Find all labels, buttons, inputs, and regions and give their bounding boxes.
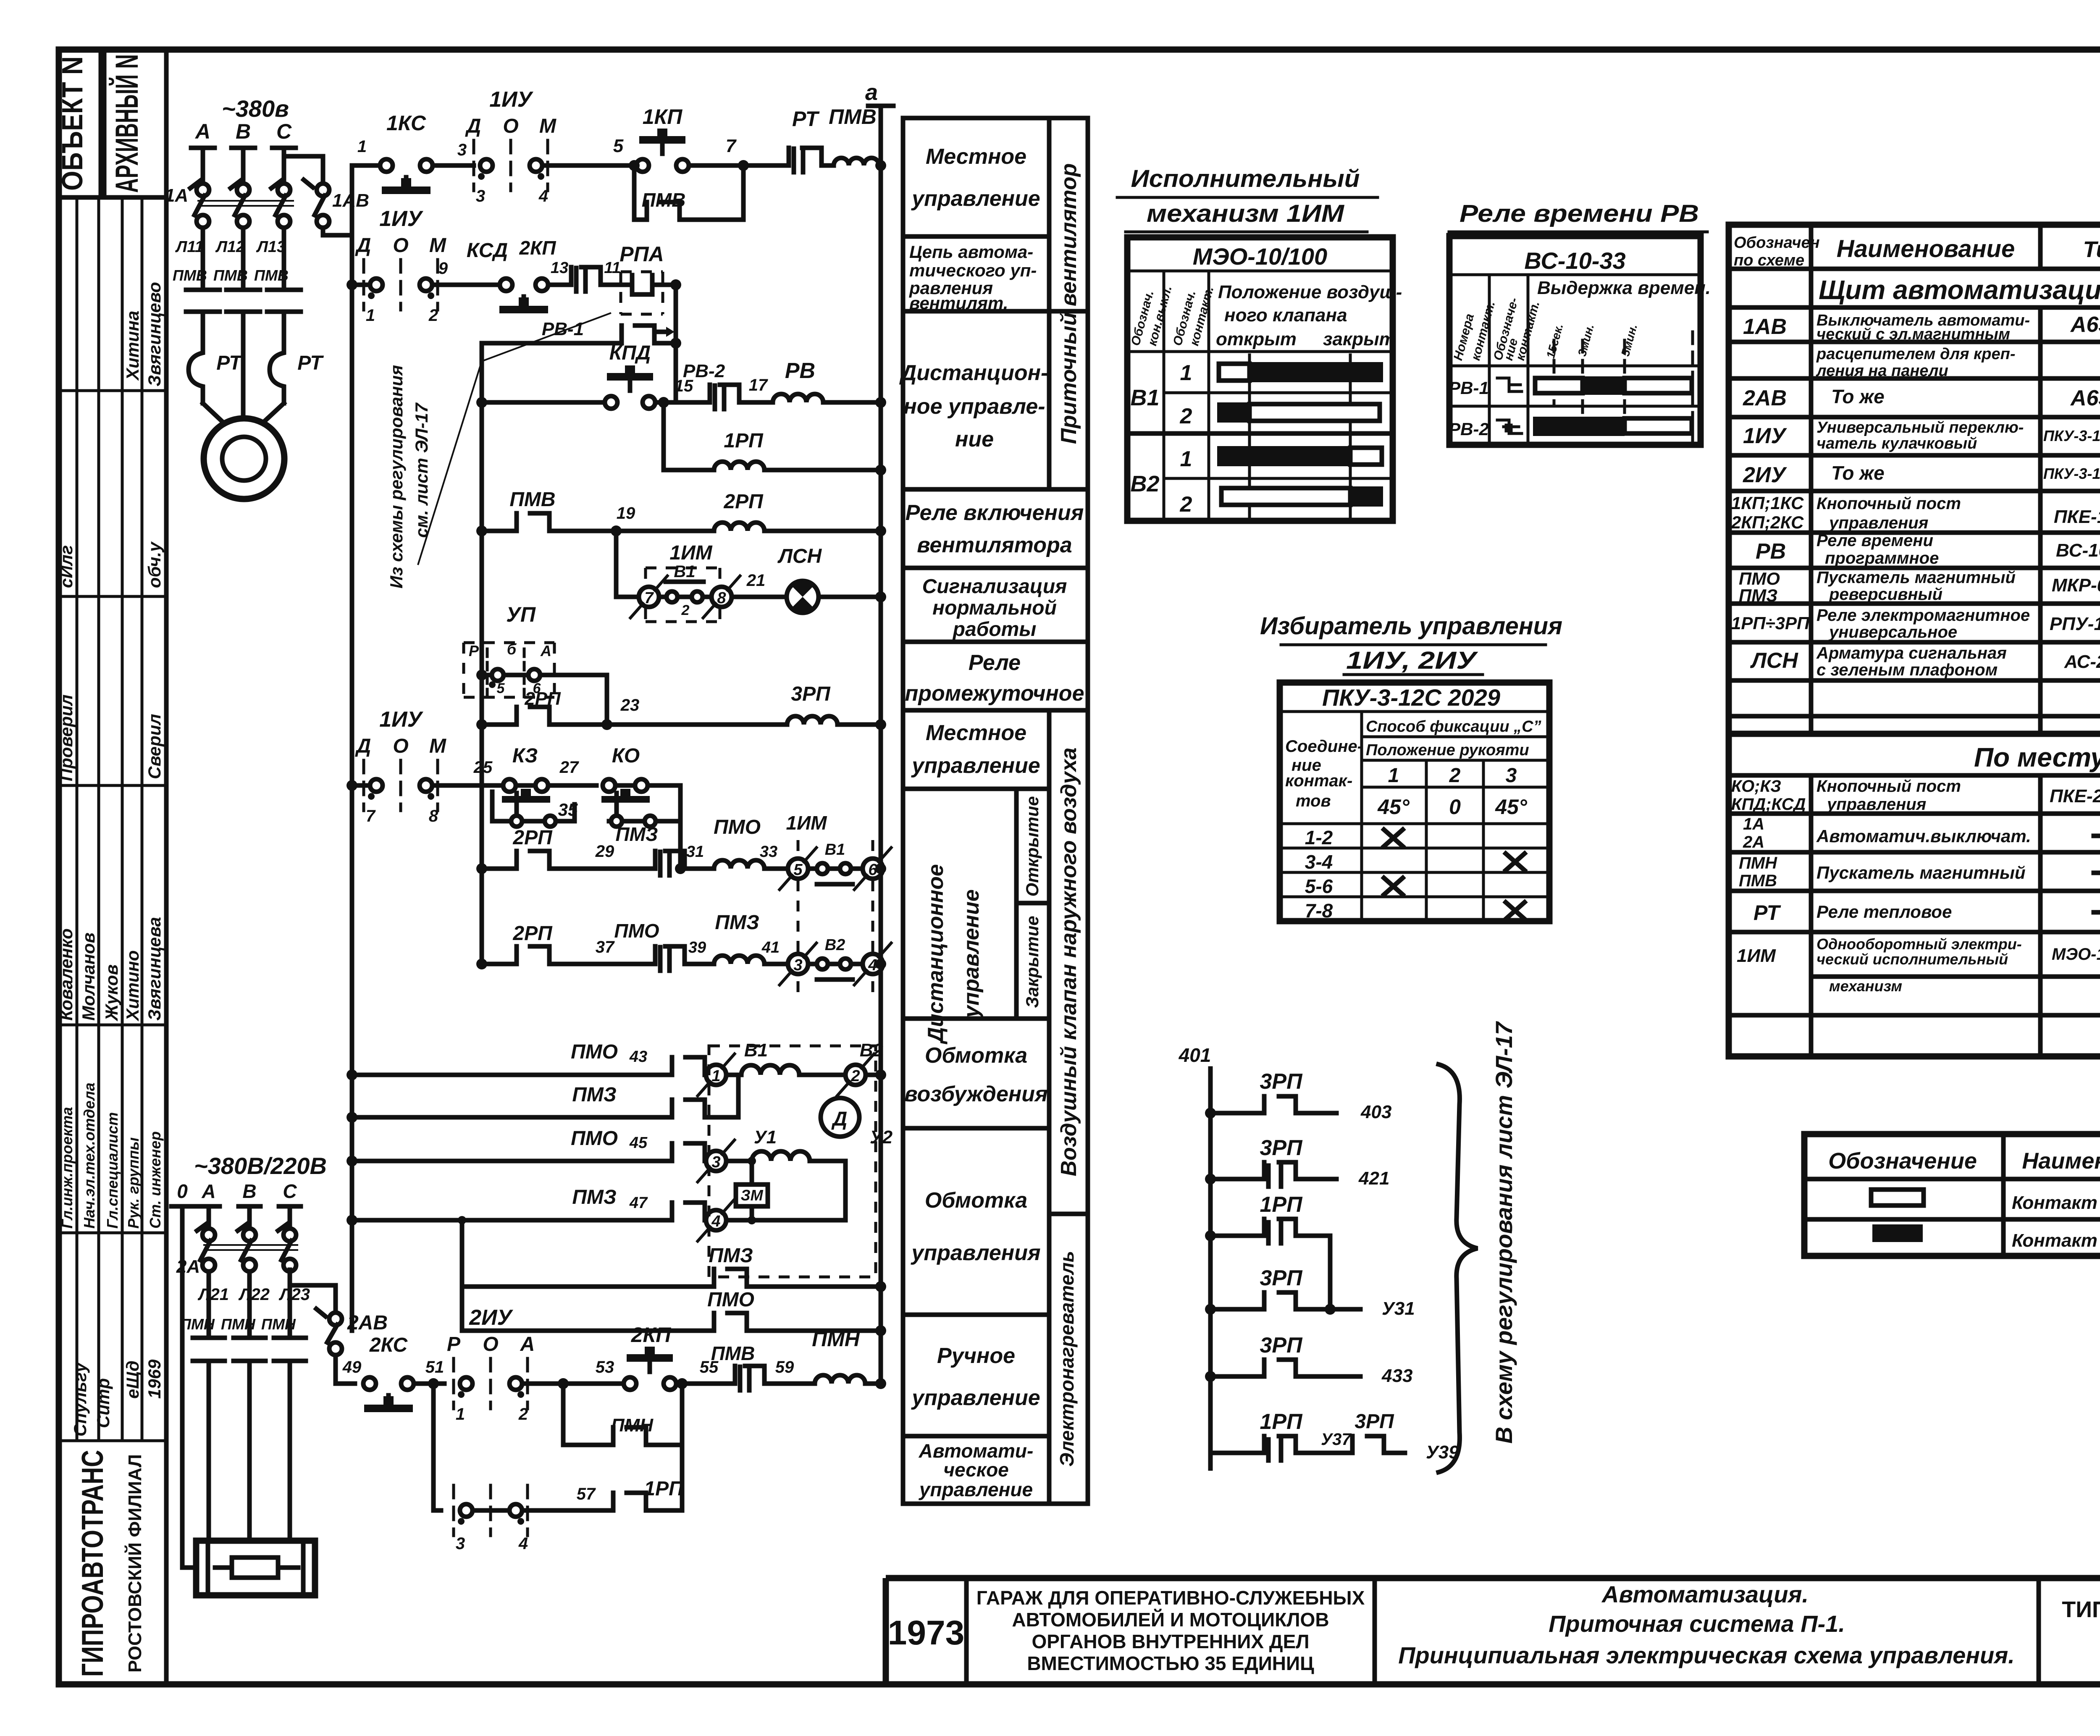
row 433: wire [1210,1374,1360,1379]
svg-text:433: 433 [1381,1366,1412,1386]
svg-text:ВС-10-33: ВС-10-33 [1524,247,1625,274]
svg-text:М: М [539,115,556,137]
svg-text:РТ: РТ [792,107,820,131]
svg-text:ОБЪЕКТ N: ОБЪЕКТ N [56,56,89,191]
svg-text:ПМН: ПМН [261,1316,296,1333]
svg-text:Пускатель магнитный: Пускатель магнитный [1816,568,2016,587]
svg-text:1РП÷3РП: 1РП÷3РП [1731,613,1810,633]
svg-text:В схему регулирования лист Э: В схему регулирования лист ЭЛ-17 [1491,1021,1517,1444]
svg-text:0: 0 [177,1180,188,1202]
right rail [879,106,883,1384]
svg-text:ПМН: ПМН [812,1327,860,1351]
svg-text:Автоматизация.: Автоматизация. [1601,1581,1809,1607]
svg-text:13: 13 [551,259,568,277]
svg-text:Реле электромагнитное: Реле электромагнитное [1816,606,2030,625]
transition ticks [1249,355,1350,519]
svg-text:1ИУ, 2ИУ: 1ИУ, 2ИУ [1346,647,1478,674]
svg-text:Коваленко: Коваленко [56,928,76,1021]
svg-text:7-8: 7-8 [1305,900,1333,922]
row ПМО wire [476,863,487,874]
selector 2ИУ lower contacts [454,1485,528,1536]
svg-text:ПКУ-3-12С 2029: ПКУ-3-12С 2029 [2043,427,2100,444]
svg-text:А: А [540,642,551,659]
svg-text:3: 3 [457,141,467,159]
svg-text:То же: То же [1831,386,1885,407]
row 3РП wire [476,719,487,730]
svg-text:Наименование: Наименование [1837,235,2015,263]
svg-text:ПМО: ПМО [614,920,659,942]
left rail [350,165,354,1331]
svg-text:29: 29 [595,842,614,861]
contact glyph РВ-1 [1497,378,1522,391]
legend frame [1804,1134,2100,1256]
svg-text:2КС: 2КС [369,1334,408,1356]
svg-text:7: 7 [366,807,376,825]
row В1 wire [346,1069,357,1080]
legend closed contact symbol [1872,1224,1923,1242]
auto row 1РП [433,1384,441,1510]
svg-text:Л22: Л22 [238,1285,270,1304]
row 421: wire [1210,1177,1336,1182]
svg-text:АРХИВНЫЙ N: АРХИВНЫЙ N [109,54,145,193]
svg-text:~380в: ~380в [222,95,289,122]
svg-text:Тип: Тип [2083,237,2100,262]
BOTTOM MIDDLE LADDER [1179,1021,1517,1472]
contact 1РП NC [1264,1219,1296,1243]
svg-text:Электронагреватель: Электронагреватель [1056,1251,1078,1467]
svg-text:43: 43 [629,1048,647,1066]
svg-text:ПМЗ: ПМЗ [572,1186,616,1208]
svg-text:ПКУ-3-12С 2029: ПКУ-3-12С 2029 [2043,465,2100,482]
svg-text:3РП: 3РП [791,683,831,705]
svg-text:Положение рукояти: Положение рукояти [1366,741,1529,759]
contact 2РП row ПМЗ [517,946,549,964]
svg-text:б: б [507,641,517,658]
svg-text:ПМВ: ПМВ [173,267,207,284]
svg-text:3РП: 3РП [1260,1266,1303,1290]
junction dots [1205,1108,1216,1119]
contact РВ-2 [710,385,739,409]
svg-text:М: М [429,735,446,757]
svg-text:ПМН: ПМН [221,1316,256,1333]
bar РВ-2 open tail [1625,418,1692,433]
svg-text:2РП: 2РП [512,827,553,849]
contact ПМЗ [655,851,685,875]
svg-text:2ИУ: 2ИУ [1743,463,1787,487]
svg-text:У1: У1 [754,1127,777,1148]
svg-text:По месту: По месту [1974,742,2100,772]
svg-text:2КП: 2КП [631,1323,672,1347]
archive no box [104,50,166,197]
svg-text:контак-: контак- [1285,772,1352,790]
motor [204,418,284,499]
branch УП [476,670,487,680]
svg-text:Молчанов: Молчанов [79,932,98,1021]
contact 3РП NC row 421 [1264,1162,1296,1187]
bar РВ-1 closed part [1583,376,1625,395]
svg-text:Жуков: Жуков [102,964,121,1022]
svg-text:31: 31 [686,843,704,861]
svg-text:3: 3 [711,1153,720,1171]
bus wire 401 [1208,1069,1213,1468]
time scale ticks [1554,332,1693,441]
label column frame [903,118,1088,1504]
svg-text:3: 3 [1506,764,1517,787]
svg-text:АВТОМОБИЛЕЙ И МОТОЦИКЛОВ: АВТОМОБИЛЕЙ И МОТОЦИКЛОВ [1012,1609,1329,1631]
svg-text:3-4: 3-4 [1305,851,1333,873]
svg-text:Гл.специалист: Гл.специалист [104,1112,121,1229]
svg-text:Ситр: Ситр [93,1378,113,1428]
contact ПМЗ 47 [672,1203,705,1220]
object no box [59,50,101,197]
svg-text:У2: У2 [870,1127,893,1148]
svg-text:ческий исполнительный: ческий исполнительный [1816,951,2008,968]
contact ПМО lower [714,1313,747,1331]
svg-text:РВ-2: РВ-2 [683,361,725,381]
drop to РВ-1 row [674,285,678,402]
stop button 2КС [363,1377,376,1390]
svg-text:РВ-1: РВ-1 [1449,378,1489,398]
svg-text:У37: У37 [1321,1430,1352,1449]
contact ПМО row У1 [672,1143,705,1161]
svg-text:а: а [865,80,878,105]
svg-text:МКР-0-58: МКР-0-58 [2052,575,2100,596]
thermal РТ elements [189,336,203,403]
brake ЗМ [750,1161,754,1184]
svg-text:ления на панели: ления на панели [1816,362,1948,380]
svg-text:ГАРАЖ ДЛЯ ОПЕРАТИВНО-СЛУЖЕБНЫХ: ГАРАЖ ДЛЯ ОПЕРАТИВНО-СЛУЖЕБНЫХ [976,1587,1365,1609]
LEFT STAMP STRIP [56,50,166,1684]
svg-text:3РП: 3РП [1260,1333,1303,1358]
FIELD WINDING ROWS [346,1040,893,1336]
svg-text:ПМЗ: ПМЗ [572,1084,616,1106]
row У1 wire [346,1156,357,1166]
big table row lines [1729,269,2100,716]
limit 1ИМ В2 [788,954,808,974]
svg-text:КПД: КПД [609,342,651,364]
svg-text:управление: управление [959,889,984,1019]
svg-text:тов: тов [1296,792,1331,810]
motor Д dashed box [709,1046,876,1277]
svg-text:1: 1 [357,137,367,156]
svg-text:Контакт разомкнут: Контакт разомкнут [2012,1192,2100,1213]
branch coil 1РП [658,397,669,408]
svg-text:Контакт замкнут: Контакт замкнут [2012,1230,2100,1251]
svg-text:1ИМ: 1ИМ [786,812,828,834]
svg-text:ПМО: ПМО [571,1041,618,1063]
contact РВ-1 [622,326,666,343]
svg-text:В2: В2 [825,936,845,954]
neutral wire [182,1229,196,1568]
svg-text:3: 3 [793,956,802,974]
svg-text:Л21: Л21 [197,1285,229,1304]
coil 3РП [787,716,837,725]
svg-text:открыт: открыт [1216,329,1297,349]
bar B2-2 closed part [1350,486,1383,507]
svg-text:Цепь автома-: Цепь автома- [909,242,1033,262]
stamp grid horizontals [59,197,166,1441]
svg-text:ОРГАНОВ ВНУТРЕННИХ ДЕЛ: ОРГАНОВ ВНУТРЕННИХ ДЕЛ [1032,1631,1309,1652]
svg-text:2РП: 2РП [512,922,553,945]
svg-text:Обмотка: Обмотка [925,1043,1027,1068]
BOTTOM CONTROL ROW [290,1270,886,1553]
svg-text:Местное: Местное [926,721,1026,745]
svg-text:РВ: РВ [1756,539,1786,564]
svg-text:еЩд: еЩд [123,1360,142,1399]
svg-text:3РП: 3РП [1260,1136,1303,1160]
terminal 4 [706,1210,726,1230]
svg-text:5: 5 [793,861,803,879]
seal branch ПМВ [634,165,743,220]
row РВ-1 wire [482,341,676,346]
svg-text:ПМВ: ПМВ [642,189,686,211]
svg-text:КО;КЗ: КО;КЗ [1731,777,1781,796]
svg-text:ПМО: ПМО [707,1289,754,1311]
bar B2-2 open part [1221,488,1350,505]
coil ПМО [714,860,764,869]
svg-text:ЛСН: ЛСН [777,545,822,567]
contact ПМВ NC bottom [735,1366,764,1390]
start button 1КП [636,159,649,172]
svg-text:возбуждения: возбуждения [904,1082,1047,1106]
svg-text:47: 47 [629,1194,648,1212]
row У39: wire [1210,1451,1405,1455]
contact glyph РВ-2 [1497,420,1522,433]
svg-text:А: А [194,120,210,143]
svg-text:ПМВ: ПМВ [213,267,248,284]
svg-text:ние: ние [955,427,994,452]
breaker 2АВ [288,1268,292,1272]
svg-text:обч.у: обч.у [144,541,164,588]
svg-text:1ИМ: 1ИМ [1737,945,1776,966]
svg-text:403: 403 [1360,1102,1391,1122]
svg-text:Звягинцево: Звягинцево [144,282,164,386]
wires Л21 Л22 Л23 [207,1271,211,1338]
svg-text:нормальной: нормальной [932,597,1057,619]
svg-text:Д: Д [465,115,481,137]
thermal contact РТ [789,148,822,172]
svg-text:Арматура сигнальная: Арматура сигнальная [1816,644,2007,662]
svg-text:управления: управления [910,1241,1040,1265]
svg-text:1: 1 [366,306,375,325]
svg-text:33: 33 [760,843,777,861]
FUNCTION LABEL COLUMN [899,118,1088,1504]
svg-text:Автоматич.выключат.: Автоматич.выключат. [1816,826,2031,846]
svg-text:ПМЗ: ПМЗ [1739,586,1777,605]
svg-text:1ИМ: 1ИМ [669,542,712,564]
svg-text:ПМВ: ПМВ [254,267,289,284]
svg-text:5: 5 [613,136,624,156]
svg-text:Воздушный клапан наружного: Воздушный клапан наружного воздуха [1057,748,1081,1177]
svg-text:КЗ: КЗ [512,745,538,767]
svg-text:1РП: 1РП [1260,1192,1303,1217]
svg-text:ПМН: ПМН [1739,854,1777,872]
svg-text:М: М [429,234,446,257]
svg-text:Спульгу: Спульгу [70,1361,90,1437]
svg-text:С: С [276,120,292,143]
terminal 1 [706,1065,726,1085]
svg-text:1КС: 1КС [386,111,426,135]
LEGEND TABLE [1804,1134,2100,1256]
svg-text:41: 41 [761,939,780,956]
MEO TABLE [1117,165,1402,521]
svg-text:управления: управления [1828,514,1928,532]
svg-text:Местное: Местное [926,144,1026,169]
svg-text:управление: управление [911,186,1040,211]
svg-text:ПКЕ-112-2: ПКЕ-112-2 [2054,507,2100,527]
svg-text:2: 2 [850,1067,860,1085]
svg-text:Кнопочный пост: Кнопочный пост [1816,777,1961,796]
svg-text:А63-М: А63-М [2070,386,2100,410]
svg-text:Хитино: Хитино [123,950,142,1022]
contact 2РП row 3РП [517,707,549,725]
svg-text:В1: В1 [744,1040,768,1061]
svg-text:Выдержка времен.: Выдержка времен. [1537,278,1711,298]
svg-text:2АВ: 2АВ [1743,386,1787,410]
svg-text:Дистанцион-: Дистанцион- [899,361,1048,385]
svg-text:О: О [503,115,518,137]
svg-text:1: 1 [1388,764,1399,787]
svg-text:Д: Д [831,1108,848,1130]
svg-text:4: 4 [711,1213,720,1230]
bar РВ-1 open lead [1535,378,1583,393]
svg-text:2ИУ: 2ИУ [469,1305,513,1330]
contact ПМВ row 2РП [517,513,549,531]
svg-text:3РП: 3РП [1354,1410,1394,1433]
SELECTOR TABLE [1260,612,1562,922]
svg-text:Из схемы регулирования: Из схемы регулирования [386,365,406,588]
svg-text:Реле включения: Реле включения [906,501,1084,525]
svg-text:с зеленым плафоном: с зеленым плафоном [1816,661,1998,679]
svg-text:1ИУ: 1ИУ [489,87,533,112]
aux rail [480,343,484,964]
svg-text:3РП: 3РП [1260,1069,1303,1094]
svg-text:О: О [483,1333,498,1355]
svg-text:Сверил: Сверил [144,714,164,779]
svg-text:4: 4 [518,1534,528,1553]
svg-text:МЭО-10/100: МЭО-10/100 [1193,243,1327,270]
svg-text:ПМЗ: ПМЗ [715,911,759,934]
motor leads [203,403,284,424]
svg-text:управление: управление [911,1386,1040,1410]
terminal 3 [706,1151,726,1171]
svg-text:Звягинцева: Звягинцева [144,917,164,1021]
svg-text:вентилятора: вентилятора [917,533,1072,557]
svg-text:1А: 1А [165,185,188,206]
svg-text:сИлг: сИлг [56,545,76,588]
bar РВ-1 open tail [1625,378,1692,393]
svg-text:Проверил: Проверил [56,694,76,781]
row КПД РВ wire [476,397,487,408]
bar B2-1 closed part [1217,446,1350,466]
svg-text:1973: 1973 [888,1614,964,1652]
svg-text:Наименование: Наименование [2022,1148,2100,1174]
svg-text:3: 3 [456,1534,465,1553]
row 403: wire [1210,1111,1336,1116]
svg-text:1КП;1КС: 1КП;1КС [1731,493,1804,513]
contact ПМЗ lower [714,1269,747,1287]
svg-text:ЛСН: ЛСН [1750,649,1798,673]
bar B1-2 closed part [1217,402,1249,423]
svg-text:Приточный вентилятор: Приточный вентилятор [1057,163,1081,444]
table PKU frame [1280,683,1549,921]
svg-text:В1: В1 [825,841,845,859]
coil ПМЗ [714,956,764,964]
svg-text:ГИПРОАВТОТРАНС: ГИПРОАВТОТРАНС [76,1450,110,1677]
svg-text:КПД;КСД: КПД;КСД [1731,795,1806,814]
svg-text:ПКЕ-212-2: ПКЕ-212-2 [2050,786,2100,806]
bar B2-1 open part [1350,448,1382,465]
big table frame [1729,225,2100,1056]
title block frame [886,1578,2100,1684]
svg-text:49: 49 [342,1358,362,1376]
svg-text:2РП: 2РП [524,688,561,709]
svg-text:1ИУ: 1ИУ [379,207,423,231]
svg-text:2А: 2А [1743,833,1764,851]
svg-text:1А: 1А [1743,815,1764,833]
svg-text:7: 7 [644,589,654,607]
stamp grid verticals [77,197,142,1441]
coil РВ [773,394,823,402]
svg-text:механизм 1ИМ: механизм 1ИМ [1147,200,1345,227]
svg-text:Гл.инж.проекта: Гл.инж.проекта [58,1107,76,1229]
svg-text:45°: 45° [1377,795,1410,819]
svg-text:В1: В1 [1130,385,1159,410]
svg-text:С: С [283,1180,297,1202]
svg-text:Хитина: Хитина [123,311,142,381]
svg-text:2АВ: 2АВ [347,1312,388,1334]
coil ПМН [815,1375,865,1384]
svg-text:2КП;2КС: 2КП;2КС [1731,512,1804,532]
row 1 wire [352,163,380,168]
svg-text:Р: Р [469,642,479,659]
svg-text:МЭО-10/100: МЭО-10/100 [2052,945,2100,964]
svg-text:Избиратель управления: Избиратель управления [1260,612,1562,640]
svg-text:Дистанционное: Дистанционное [924,864,948,1044]
branch lower ПМЗ [460,1220,465,1331]
contact 3РП row У39 [1352,1436,1384,1453]
svg-text:Щит автоматизации ША: Щит автоматизации ША [1819,275,2100,305]
svg-text:РПА: РПА [619,242,664,266]
svg-text:В: В [242,1180,256,1202]
svg-text:Л11: Л11 [175,238,204,256]
svg-text:Реле времени: Реле времени [1816,531,1933,550]
svg-text:1ИУ: 1ИУ [379,707,423,732]
svg-text:7: 7 [726,136,737,156]
svg-text:Обозначен: Обозначен [1734,234,1820,252]
seal branch ПМН [558,1378,569,1389]
RV TABLE [1449,200,1711,445]
contact 3РП row У31 [1264,1292,1296,1309]
bypass link 35 [492,792,517,821]
TOP POWER SECTION [165,95,369,499]
svg-text:2: 2 [1180,492,1192,517]
contact 2КП [571,267,601,292]
svg-text:РВ-2: РВ-2 [1449,419,1489,439]
svg-text:вентилят.: вентилят. [909,293,1008,313]
svg-text:КО: КО [612,745,640,767]
svg-text:Обмотка: Обмотка [925,1188,1027,1213]
lamp ЛСН [787,581,819,613]
svg-text:Пускатель магнитный: Пускатель магнитный [1816,863,2026,882]
stop button 1КС [380,159,393,172]
svg-text:8: 8 [429,807,438,825]
svg-text:1КП: 1КП [643,105,683,129]
svg-text:по схеме: по схеме [1734,252,1804,269]
svg-text:35: 35 [558,800,578,819]
button КПД [605,396,617,409]
svg-text:2: 2 [681,602,690,618]
